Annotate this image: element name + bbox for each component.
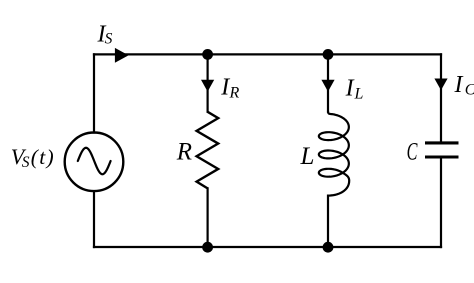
svg-text:S: S (105, 30, 113, 47)
svg-text:S: S (22, 154, 30, 171)
svg-text:R: R (176, 139, 192, 166)
svg-text:C: C (407, 139, 418, 166)
svg-text:I: I (345, 76, 355, 102)
svg-text:L: L (300, 143, 315, 170)
svg-text:(t): (t) (31, 145, 55, 169)
svg-text:I: I (454, 72, 464, 98)
svg-text:R: R (229, 85, 240, 102)
svg-text:C: C (465, 81, 474, 98)
svg-text:L: L (354, 85, 364, 102)
